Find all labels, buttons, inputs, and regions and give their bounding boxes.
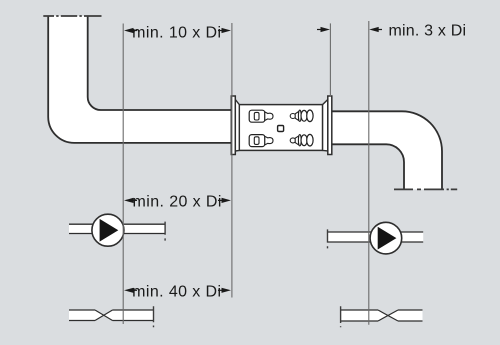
pipe outlet break line (dash-dot) [394, 188, 457, 190]
flow meter body [239, 105, 322, 151]
svg-text:min. 3 x Di: min. 3 x Di [389, 23, 467, 40]
flow meter inlet taper [235, 100, 239, 152]
pump 2 circle [370, 222, 402, 254]
flow meter outlet taper [323, 100, 328, 152]
pump 1 pipe end break (dash-dot) [164, 222, 166, 241]
dim row1 right arrow [222, 28, 232, 33]
dim row3 left arrow [124, 288, 134, 293]
transducer B body (upstream bottom) [249, 135, 265, 147]
transducer D mid ellipse [301, 135, 307, 146]
valve 2 left body [341, 310, 388, 321]
measurement line at meter inlet plane [231, 23, 233, 298]
transducer C tip (downstream top) [290, 114, 295, 119]
valve 1 left body [69, 310, 104, 321]
valve 2 end break (dash-dot) [340, 306, 342, 327]
pump 2 pipe top edge [328, 231, 424, 233]
pipe inlet L-bend fill [48, 16, 233, 143]
pipe inlet break line (dash-dot) [43, 15, 101, 17]
flow meter outlet flange [328, 96, 332, 155]
dim row2 left arrow [124, 198, 134, 203]
pump 1 pipe top edge [69, 223, 165, 225]
transducer C ring [298, 110, 301, 121]
pump 1 pipe bottom edge [69, 233, 165, 235]
transducer D cone [295, 136, 299, 145]
valve 1 right body [104, 310, 154, 321]
transducer B nose [265, 136, 273, 145]
dim row3 right arrow [222, 288, 232, 293]
valve 2 right body [388, 310, 423, 321]
dim row1 outlet right arrow [369, 27, 379, 32]
pump 2 rotor triangle [378, 227, 397, 250]
valve 1 end break (dash-dot) [153, 306, 155, 327]
measurement line upstream (10/20/40 Di reference) [122, 24, 124, 325]
transducer D main ellipse [307, 134, 313, 146]
svg-text:min. 40 x Di: min. 40 x Di [132, 284, 221, 301]
flow meter inlet flange [231, 96, 235, 155]
transducer A ring [254, 112, 259, 120]
pump 2 pipe end break (dash-dot) [327, 229, 329, 248]
meter centre sensor port [278, 126, 284, 132]
dim row1 left arrow [124, 28, 134, 33]
pump 2 pipe bottom edge [328, 241, 424, 243]
transducer A body (upstream top) [249, 110, 265, 122]
pipe outlet L-bend fill [331, 111, 443, 189]
pump 2 pipe fill [328, 232, 424, 242]
valve 1 outline [69, 310, 154, 321]
transducer A nose [265, 112, 273, 121]
dim row1 outlet left arrow [321, 27, 331, 32]
pump 1 pipe fill [69, 224, 165, 233]
pipe inlet inner edge [88, 16, 232, 110]
transducer C mid ellipse [301, 110, 307, 121]
pipe inlet outer edge [48, 16, 232, 143]
transducer D ring [298, 135, 301, 146]
dim row2 right arrow [222, 198, 232, 203]
pump 1 circle [92, 214, 124, 246]
measurement line at meter outlet plane [329, 23, 331, 96]
pump 1 rotor triangle [100, 219, 119, 242]
valve 2 outline [341, 310, 423, 321]
svg-text:min. 10 x Di: min. 10 x Di [132, 25, 221, 42]
pipe outlet inner edge [331, 144, 404, 189]
measurement line downstream (3 Di reference) [368, 21, 370, 325]
transducer D tip (downstream bottom) [290, 138, 295, 143]
transducer C cone [295, 112, 299, 121]
svg-text:min. 20 x Di: min. 20 x Di [133, 194, 222, 211]
transducer C main ellipse [307, 110, 313, 122]
pipe outlet outer edge [331, 111, 442, 189]
transducer B ring [254, 137, 259, 145]
